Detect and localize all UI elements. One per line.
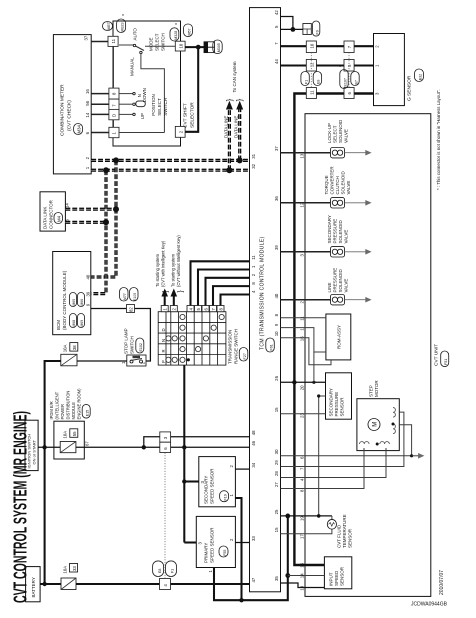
svg-text:1: 1 (375, 64, 380, 67)
inline squares column1 (306, 41, 316, 53)
svg-text:M305: M305 (217, 43, 221, 52)
svg-text:DISTRIBUTION: DISTRIBUTION (65, 391, 70, 420)
svg-text:SENSOR: SENSOR (347, 528, 352, 548)
svg-text:36: 36 (274, 196, 279, 201)
svg-text:* : This connector is not show: * : This connector is not shown in "Harn… (436, 89, 441, 190)
svg-text:LOCK-UP: LOCK-UP (327, 123, 332, 143)
svg-text:CVT UNIT: CVT UNIT (434, 344, 440, 366)
selector pin 11 square (108, 36, 118, 46)
drain arrow (345, 299, 369, 301)
svg-text:AUTO: AUTO (132, 28, 137, 41)
wire secondary pin1 down (235, 498, 241, 600)
svg-text:VALVE: VALVE (346, 181, 351, 195)
wire TCM9 to ROM (281, 328, 326, 352)
svg-text:8: 8 (274, 313, 279, 316)
svg-text:IPDM E/R: IPDM E/R (49, 401, 54, 419)
svg-text:SECONDARY: SECONDARY (204, 476, 209, 504)
svg-text:27: 27 (274, 482, 279, 487)
svg-text:2: 2 (229, 465, 234, 468)
svg-text:CLUTCH: CLUTCH (335, 176, 340, 194)
svg-text:6: 6 (300, 456, 305, 459)
wire input pin14 from ground bus (288, 575, 325, 577)
svg-text:MANUAL: MANUAL (129, 57, 134, 76)
drain arrow (345, 251, 369, 253)
svg-text:20: 20 (300, 385, 305, 390)
svg-text:SELECT: SELECT (333, 125, 338, 143)
svg-text:BATTERY: BATTERY (31, 577, 36, 597)
wire meter16 (92, 93, 109, 95)
wire TCM39 to sec pressure solenoid (jog) (281, 251, 331, 253)
wire to primary pin3 (184, 541, 196, 543)
svg-text:M323: M323 (121, 22, 125, 31)
position switch contacts (119, 93, 133, 95)
svg-text:}: } (235, 98, 244, 101)
connector M328 oval (170, 28, 179, 41)
wire DLC14 (65, 208, 116, 211)
svg-text:SECONDARY: SECONDARY (327, 215, 332, 243)
step motor box (357, 399, 399, 451)
svg-text:SWITCH: SWITCH (163, 98, 168, 116)
svg-text:To starting system: To starting system (170, 253, 175, 287)
selector pin 1 square (109, 127, 119, 137)
battery box (26, 567, 40, 602)
svg-text:34: 34 (251, 462, 256, 467)
svg-text:16: 16 (85, 89, 90, 94)
selector pin 10 square (175, 41, 185, 51)
transmission range switch grid (158, 312, 226, 365)
svg-text:(CVT without Intelligent Key): (CVT without Intelligent Key) (176, 235, 181, 287)
svg-text:38: 38 (72, 345, 77, 350)
svg-text:M328: M328 (174, 31, 178, 40)
connector F61 (266, 338, 275, 352)
wire TCM37 to lock-up solenoid (281, 152, 331, 154)
svg-text:CVT SHIFT: CVT SHIFT (183, 103, 189, 128)
svg-text:18: 18 (300, 585, 305, 590)
inline squares column2 (344, 41, 354, 53)
svg-text:LINE: LINE (327, 282, 332, 292)
svg-text:M57: M57 (188, 29, 192, 36)
svg-text:VALVE: VALVE (344, 230, 349, 244)
inline connector pin 4 (160, 579, 171, 590)
svg-text:4: 4 (300, 478, 305, 481)
wire battery vertical to ignition and fuse38 (45, 361, 61, 584)
wire manual contact down to position switch common (141, 54, 165, 133)
wire pin3 to TCM 48 (171, 436, 250, 438)
svg-text:10A: 10A (63, 566, 68, 574)
connector E8 oval (153, 561, 164, 577)
svg-text:B32: B32 (419, 74, 423, 80)
svg-text:4: 4 (251, 290, 256, 293)
svg-text:SECONDARY: SECONDARY (329, 388, 334, 416)
svg-text:8: 8 (251, 282, 256, 285)
svg-text:}: } (225, 98, 234, 101)
svg-text:RANGE SWITCH: RANGE SWITCH (233, 329, 238, 364)
svg-text:11: 11 (251, 255, 256, 260)
BCM connectors (70, 293, 77, 307)
svg-text:19: 19 (300, 516, 305, 521)
svg-text:*: * (339, 65, 341, 71)
svg-text:ON or START: ON or START (32, 439, 37, 464)
svg-text:1: 1 (85, 166, 90, 169)
svg-text:To starting system: To starting system (155, 253, 160, 287)
svg-text:48: 48 (251, 430, 256, 435)
wire TCM44 to G sensor pin1 (281, 64, 374, 66)
svg-text:PRIMARY: PRIMARY (204, 543, 209, 563)
TCM box (250, 8, 281, 592)
IPDM E/R box (54, 421, 84, 459)
connector M57 oval (103, 22, 113, 31)
motor M (368, 419, 380, 431)
svg-text:11: 11 (309, 90, 314, 95)
wire battery to fuse33 and TCM47 (40, 583, 61, 585)
svg-text:10A: 10A (63, 345, 68, 353)
svg-text:SOLENOID: SOLENOID (338, 119, 343, 143)
svg-text:32: 32 (251, 163, 256, 168)
svg-text:40: 40 (274, 293, 279, 298)
svg-text:BCM: BCM (56, 320, 61, 330)
wire IPDM to junction (76, 446, 160, 448)
wire primary pin2 to TCM33 (235, 542, 249, 544)
svg-text:SELECTOR: SELECTOR (190, 102, 196, 128)
svg-text:2010/07/07: 2010/07/07 (439, 570, 445, 595)
svg-text:15: 15 (274, 527, 279, 532)
wire DLC6 (65, 221, 106, 224)
svg-text:(BODY CONTROL MODULE): (BODY CONTROL MODULE) (62, 270, 67, 330)
svg-text:VALVE: VALVE (344, 279, 349, 293)
svg-text:7: 7 (274, 42, 279, 45)
connector E102 (136, 338, 144, 353)
svg-text:COMBINATION METER: COMBINATION METER (60, 84, 66, 136)
wire meter37 to selector pin11 (91, 41, 108, 43)
svg-text:E8: E8 (317, 80, 321, 84)
wire TCM10 to ROM (281, 338, 332, 365)
wire TCM42 to F9 (281, 17, 293, 30)
svg-text:P: P (161, 360, 166, 363)
svg-text:39: 39 (85, 291, 90, 296)
svg-text:}: } (162, 290, 169, 293)
connector F27 (239, 348, 248, 362)
inline connector pin 6 (160, 442, 171, 452)
svg-text:9: 9 (85, 303, 90, 306)
svg-text:17: 17 (300, 534, 305, 539)
svg-text:SOLENOID: SOLENOID (338, 219, 343, 243)
svg-text:MOTOR: MOTOR (374, 380, 379, 397)
svg-text:MODE: MODE (149, 38, 154, 52)
CVT unit box (305, 114, 431, 597)
svg-text:25: 25 (274, 509, 279, 514)
svg-text:M4: M4 (57, 215, 62, 222)
wire meter56 (92, 103, 109, 105)
svg-text:56: 56 (85, 100, 90, 105)
svg-text:E102: E102 (139, 343, 143, 351)
wire TCM15 to pressure sensor (281, 413, 326, 415)
svg-text:12: 12 (300, 202, 305, 207)
wire secondary pin2 to TCM34 (235, 468, 249, 470)
CAN line lower (meter pin1 to TCM 32) (91, 169, 249, 172)
input speed sensor box (324, 557, 351, 589)
svg-text:TCM (TRANSMISSION CONTROL MODU: TCM (TRANSMISSION CONTROL MODULE) (260, 236, 266, 350)
svg-text:16: 16 (300, 336, 305, 341)
svg-text:CONNECTOR: CONNECTOR (49, 199, 54, 229)
svg-text:SELECT: SELECT (155, 33, 160, 51)
svg-text:35: 35 (274, 576, 279, 581)
To CAN system arrows (228, 108, 231, 170)
connectors E107 B7 (340, 70, 348, 89)
svg-text:8: 8 (300, 489, 305, 492)
svg-text:PRESSURE: PRESSURE (333, 268, 338, 293)
svg-text:10A: 10A (63, 431, 68, 439)
svg-text:SPEED: SPEED (334, 570, 339, 586)
svg-text:11: 11 (300, 316, 305, 321)
svg-text:STEP: STEP (368, 385, 373, 397)
wire pin10 to M305 node (185, 46, 204, 48)
svg-text:2: 2 (300, 301, 305, 304)
svg-text:DOWN: DOWN (142, 88, 147, 102)
svg-text:M68: M68 (72, 320, 76, 327)
BCM box (53, 252, 91, 335)
svg-text:82: 82 (129, 307, 134, 312)
svg-text:26: 26 (274, 375, 279, 380)
svg-text:N: N (137, 94, 142, 97)
svg-text:14: 14 (85, 112, 90, 117)
svg-text:10: 10 (274, 331, 279, 336)
svg-text:46: 46 (251, 440, 256, 445)
wire TCM35 to input pin18 (281, 583, 325, 588)
svg-text:SOLENOID: SOLENOID (341, 170, 346, 194)
wire range switch bottom to ignition feed (183, 365, 185, 542)
starting system arrows (164, 296, 166, 306)
svg-text:D: D (112, 114, 117, 117)
svg-text:9: 9 (274, 323, 279, 326)
connector F19 (220, 491, 229, 502)
svg-text:F1: F1 (171, 569, 175, 573)
wire TCM26 to pressure sensor (281, 381, 326, 383)
svg-text:12: 12 (309, 62, 314, 67)
svg-text:30: 30 (274, 449, 279, 454)
step motor coils (360, 408, 396, 445)
fuse 55 (60, 442, 76, 453)
svg-text:F1: F1 (304, 80, 308, 84)
svg-text:TRANSMISSION: TRANSMISSION (227, 330, 232, 364)
wire meter14 (92, 113, 109, 115)
svg-text:POSITION: POSITION (151, 94, 156, 116)
inline pin 82 (127, 305, 135, 313)
data link connector M4 box (40, 192, 65, 231)
svg-text:F51: F51 (444, 359, 448, 365)
svg-text:2: 2 (229, 538, 234, 541)
wire pin6 to TCM 46 (171, 446, 250, 448)
svg-text:28: 28 (274, 471, 279, 476)
svg-text:67: 67 (85, 441, 90, 446)
drain arrow (345, 202, 369, 204)
CAN branch vertical right (91, 160, 116, 277)
wire fuse33 to connector4 (76, 583, 160, 585)
connector F1 oval (166, 561, 177, 577)
svg-text:N: N (161, 339, 166, 342)
svg-text:3: 3 (300, 254, 305, 257)
connectors F1 E8 (301, 72, 309, 86)
combination meter M34 box (53, 35, 91, 174)
svg-text:2: 2 (375, 45, 380, 48)
svg-text:STOP LAMP: STOP LAMP (124, 328, 129, 354)
wire TCM8 to ROM (281, 317, 326, 319)
range switch contact circles (166, 314, 225, 362)
svg-text:15: 15 (300, 562, 305, 567)
connector F9 symbol (303, 24, 311, 35)
svg-text:47: 47 (251, 577, 256, 582)
wire selector pin2 to ground node (185, 47, 198, 132)
wire ignition to IPDM (38, 446, 60, 448)
ground wire to G sensor pin3 (294, 94, 373, 566)
svg-text:M65: M65 (72, 299, 76, 306)
wire fuse38 to stop lamp switch (77, 360, 127, 362)
svg-text:5: 5 (274, 25, 279, 28)
connector M4 (54, 213, 63, 224)
svg-text:55: 55 (72, 431, 77, 436)
svg-text:23: 23 (300, 413, 305, 418)
svg-text:JCDWA0944GB: JCDWA0944GB (411, 602, 448, 608)
primary speed sensor box (196, 516, 235, 567)
svg-text:TEMPERATURE: TEMPERATURE (342, 514, 347, 548)
selector pin 2 square (175, 126, 185, 137)
svg-text:F61: F61 (269, 344, 273, 350)
drain arrow (345, 152, 369, 154)
svg-text:3: 3 (375, 92, 380, 95)
svg-text:3: 3 (197, 542, 202, 545)
ROM assy box (326, 314, 351, 360)
svg-text:10: 10 (178, 43, 183, 48)
svg-text:SELECT: SELECT (157, 98, 162, 116)
CVT fluid temperature sensor (281, 515, 332, 517)
svg-text:F9: F9 (315, 30, 319, 34)
svg-text:F27: F27 (243, 353, 247, 359)
svg-text:33: 33 (251, 536, 256, 541)
wire primary pin1 ground bus (214, 516, 288, 600)
ground connector M305 (black) (204, 42, 215, 53)
wire pin11 down to pin8 (113, 47, 115, 88)
svg-text:}: } (178, 290, 185, 293)
svg-text:SWITCH: SWITCH (130, 336, 135, 354)
svg-text:G SENSOR: G SENSOR (407, 75, 413, 101)
svg-text:29: 29 (274, 460, 279, 465)
svg-text:39: 39 (274, 245, 279, 250)
connector B32 (415, 69, 424, 82)
svg-text:TORQUE: TORQUE (324, 175, 329, 194)
svg-text:2: 2 (141, 361, 146, 364)
secondary speed sensor box (199, 457, 236, 507)
stop lamp switch fuse 38 (61, 354, 77, 366)
svg-text:E107: E107 (343, 78, 347, 86)
svg-text:*: * (122, 14, 124, 20)
step motor wires (281, 455, 412, 457)
svg-text:M66: M66 (80, 299, 84, 306)
connector M57 oval (right) (184, 24, 193, 37)
svg-text:MODULE: MODULE (71, 402, 76, 420)
svg-text:F19: F19 (224, 494, 228, 500)
svg-text:E105: E105 (133, 293, 137, 301)
svg-text:14: 14 (65, 203, 70, 208)
junction dots CAN (113, 157, 119, 163)
range switch wires to TCM (191, 261, 250, 305)
svg-text:13: 13 (300, 153, 305, 158)
svg-text:11: 11 (111, 38, 116, 43)
svg-text:D: D (161, 328, 166, 331)
svg-text:37: 37 (274, 146, 279, 151)
svg-text:42: 42 (274, 10, 279, 15)
wire TCM36 to tcc solenoid (281, 202, 331, 204)
svg-text:SENSOR: SENSOR (340, 397, 345, 417)
svg-text:10: 10 (309, 43, 314, 48)
svg-text:CONVERTER: CONVERTER (330, 166, 335, 195)
svg-text:POWER: POWER (60, 404, 65, 420)
svg-text:DATA LINE: DATA LINE (234, 116, 239, 138)
wire meter6 (92, 132, 109, 134)
wire square1 to common (119, 132, 164, 134)
svg-text:To CAN system: To CAN system (232, 61, 237, 92)
inline connector M77/E105 ovals (120, 288, 129, 302)
svg-text:6: 6 (85, 131, 90, 134)
svg-text:(CVT with Intelligent Key): (CVT with Intelligent Key) (160, 240, 165, 287)
svg-text:ENGINE ROOM): ENGINE ROOM) (76, 388, 81, 420)
svg-text:*: * (175, 23, 177, 29)
svg-text:CVT FLUID: CVT FLUID (336, 524, 341, 548)
CVT shift selector box (113, 21, 181, 146)
svg-text:VALVE: VALVE (344, 129, 349, 143)
range switch top pin squares (161, 306, 224, 312)
svg-text:M57: M57 (107, 23, 111, 30)
connector E15 (82, 404, 90, 418)
svg-text:UP: UP (140, 113, 145, 119)
fuse 33 (61, 578, 76, 590)
G sensor box (374, 34, 405, 106)
inline connector pin 3 (160, 432, 171, 442)
CAN branch vertical left (91, 170, 106, 293)
connector F55 (219, 546, 228, 557)
connector M34 (74, 124, 83, 135)
svg-text:E8: E8 (158, 569, 162, 573)
svg-text:M34: M34 (77, 125, 82, 134)
svg-text:1: 1 (251, 265, 256, 268)
stop lamp switch (127, 355, 146, 366)
svg-text:40: 40 (85, 274, 90, 279)
wire connector4 to TCM 47 (171, 583, 250, 585)
svg-text:37: 37 (84, 35, 89, 40)
svg-text:R: R (161, 349, 166, 352)
svg-text:SWITCH: SWITCH (161, 33, 166, 51)
wire to secondary pin3 (184, 480, 199, 482)
svg-text:15: 15 (274, 407, 279, 412)
svg-text:31: 31 (251, 153, 256, 158)
wire TCM40 to line pressure solenoid (281, 299, 331, 301)
wire mode common to selector pin10 (145, 45, 175, 47)
svg-text:14: 14 (300, 573, 305, 578)
svg-text:M77: M77 (123, 293, 127, 300)
svg-text:B7: B7 (354, 80, 358, 84)
ignition switch box (25, 420, 38, 470)
wire TCM7 to G sensor pin2 (281, 45, 374, 47)
svg-text:33: 33 (72, 566, 77, 571)
svg-text:INPUT: INPUT (328, 572, 333, 586)
svg-text:F55: F55 (223, 550, 227, 556)
svg-text:SPEED SENSOR: SPEED SENSOR (210, 468, 215, 504)
svg-text:(CVT CHECK): (CVT CHECK) (67, 100, 73, 131)
wire TCM5 to F9 (281, 28, 303, 30)
branch to connector pin 3 (144, 437, 160, 448)
CAN line upper (meter pin2 to TCM 31) (91, 159, 249, 162)
connector M323 oval (117, 19, 126, 33)
svg-text:E15: E15 (85, 410, 89, 416)
svg-text:SENSOR: SENSOR (339, 566, 344, 586)
